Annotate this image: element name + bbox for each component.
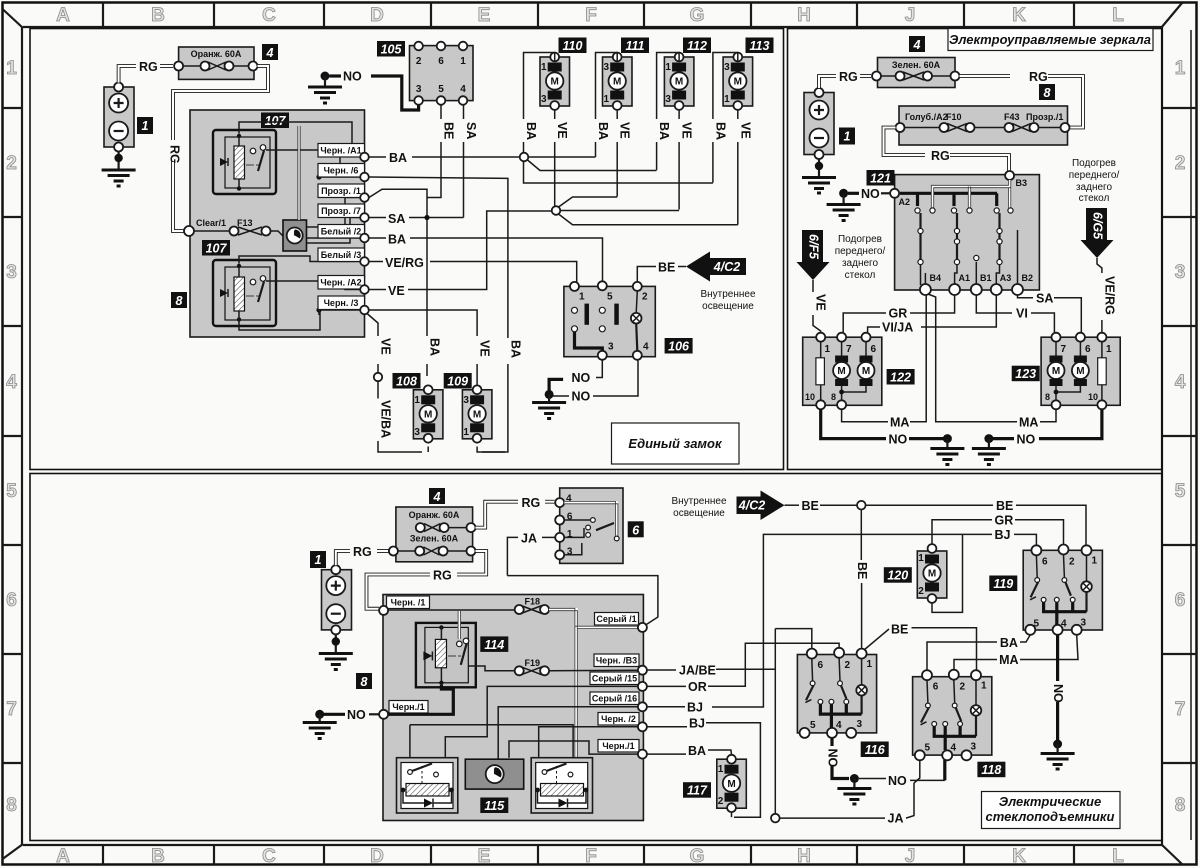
svg-text:F13: F13 bbox=[237, 218, 253, 228]
svg-text:RG: RG bbox=[139, 60, 158, 74]
motor 109 bbox=[462, 385, 492, 442]
svg-text:2: 2 bbox=[960, 682, 966, 693]
label 118 bbox=[977, 762, 1005, 778]
relay timer K 115-style box bbox=[283, 220, 307, 251]
label 115 bbox=[480, 798, 508, 814]
svg-text:2: 2 bbox=[718, 796, 724, 807]
svg-text:3: 3 bbox=[604, 62, 610, 73]
wire BE text to 118 pin1 bbox=[864, 628, 977, 670]
svg-text:5: 5 bbox=[810, 720, 816, 731]
label 122 bbox=[887, 369, 915, 385]
svg-text:6: 6 bbox=[871, 344, 877, 355]
node Черн./3 bbox=[360, 306, 369, 315]
svg-text:VE: VE bbox=[680, 122, 694, 139]
svg-text:4: 4 bbox=[6, 372, 17, 393]
svg-text:BA: BA bbox=[508, 340, 522, 358]
svg-text:1: 1 bbox=[918, 553, 924, 564]
svg-text:RG: RG bbox=[353, 545, 372, 559]
svg-text:1: 1 bbox=[541, 62, 547, 73]
svg-text:Электроуправляемые зеркала: Электроуправляемые зеркала bbox=[949, 32, 1151, 47]
svg-text:1: 1 bbox=[825, 344, 831, 355]
svg-text:освещение: освещение bbox=[673, 508, 725, 519]
wire SA B2 to 123 pin6 bbox=[1018, 295, 1082, 332]
svg-text:3: 3 bbox=[665, 94, 671, 105]
svg-text:110: 110 bbox=[563, 39, 583, 53]
battery 1 (windows) bbox=[322, 565, 352, 634]
svg-text:Единый замок: Единый замок bbox=[628, 436, 723, 451]
svg-text:M: M bbox=[1052, 366, 1060, 377]
arrow 6/F5 (down) bbox=[797, 230, 830, 280]
svg-text:Оранж. 60А: Оранж. 60А bbox=[191, 49, 242, 59]
wire JA/BE long vertical and JA bottom bbox=[775, 629, 914, 819]
svg-text:M: M bbox=[473, 410, 481, 421]
svg-text:Черн. /А1: Черн. /А1 bbox=[320, 146, 361, 156]
svg-text:7: 7 bbox=[6, 699, 17, 720]
wire Белый/2 (BA) to 106 pin5 bbox=[369, 238, 603, 281]
fuse 4 (Оранж. 60А) bbox=[174, 47, 257, 79]
junction dots module terminals bbox=[316, 174, 321, 179]
label 8 (window module) bbox=[356, 673, 372, 689]
wire Черн./6 to motor109 (BA) bbox=[369, 177, 508, 452]
wire JA from switch 6 pin1 bbox=[507, 537, 555, 575]
svg-text:H: H bbox=[797, 846, 811, 867]
svg-text:8: 8 bbox=[1045, 392, 1050, 402]
svg-text:1: 1 bbox=[867, 659, 873, 670]
wire NO 122 with grounds bbox=[821, 409, 965, 464]
svg-text:SA: SA bbox=[388, 212, 405, 226]
label 123 bbox=[1012, 366, 1040, 382]
wire VE from 6/F5 to 122 pin1 bbox=[813, 280, 821, 333]
svg-text:RG: RG bbox=[931, 149, 950, 163]
label 114 bbox=[480, 636, 508, 652]
svg-text:121: 121 bbox=[870, 172, 891, 186]
wire VE2 column motor111 bottom bbox=[616, 110, 618, 197]
svg-text:5: 5 bbox=[607, 292, 613, 303]
label 112 bbox=[683, 38, 711, 54]
svg-text:Белый /3: Белый /3 bbox=[321, 250, 361, 260]
arrow 6/G5 (down) bbox=[1081, 208, 1114, 258]
wire VI/JA A3 to 122 pin6 bbox=[868, 295, 997, 332]
svg-text:10: 10 bbox=[1088, 392, 1098, 402]
wire VE4 column motor113 bottom bbox=[737, 110, 739, 225]
svg-text:3: 3 bbox=[567, 547, 573, 558]
node Белый/2 bbox=[360, 234, 369, 243]
svg-text:Внутреннее: Внутреннее bbox=[671, 496, 727, 507]
svg-text:M: M bbox=[734, 77, 742, 88]
motor 120 bbox=[917, 544, 947, 603]
terminal Черн./2 bbox=[598, 713, 647, 732]
wire MA 123 to B4 bbox=[928, 294, 1056, 422]
fuse 4 Зелен. 60А (mirrors) bbox=[872, 58, 960, 88]
ground NO near 105 bbox=[308, 70, 419, 111]
terminal Серый/15 bbox=[590, 672, 647, 691]
svg-text:6: 6 bbox=[933, 682, 939, 693]
svg-text:F18: F18 bbox=[525, 597, 541, 607]
label 8 bbox=[171, 292, 187, 308]
label 120 bbox=[884, 567, 912, 583]
label 117 bbox=[683, 782, 711, 798]
wire NO 119/4 to ground bbox=[1041, 635, 1075, 769]
svg-text:Оранж. 60А: Оранж. 60А bbox=[409, 510, 460, 520]
svg-text:112: 112 bbox=[687, 39, 707, 53]
svg-text:VE/BA: VE/BA bbox=[379, 400, 393, 438]
label 116 bbox=[861, 742, 889, 758]
svg-text:B1: B1 bbox=[980, 273, 992, 283]
svg-text:1: 1 bbox=[1175, 58, 1186, 79]
wire RG fuse8 to 121 B3 bbox=[884, 128, 1010, 172]
wire GR A1 to 122 pin7 bbox=[843, 295, 954, 332]
svg-text:4: 4 bbox=[913, 38, 921, 52]
svg-text:107: 107 bbox=[265, 114, 287, 128]
wire motor120 bottom to BJ row bbox=[932, 534, 963, 612]
svg-text:J: J bbox=[905, 5, 916, 26]
motor 111 bbox=[603, 53, 633, 110]
svg-text:113: 113 bbox=[750, 39, 770, 53]
wire RG fuse to module (down left side) bbox=[168, 66, 269, 231]
svg-text:MA: MA bbox=[999, 653, 1018, 667]
svg-text:Прозр. /1: Прозр. /1 bbox=[321, 186, 361, 196]
svg-text:NO: NO bbox=[888, 774, 907, 788]
svg-text:BA: BA bbox=[389, 151, 407, 165]
svg-text:C: C bbox=[262, 846, 276, 867]
wire BA2 column to motor 111 bbox=[596, 53, 618, 158]
node Прозр./1 bbox=[360, 193, 369, 202]
wire BA 119/5 to 118/6 bbox=[927, 635, 1030, 670]
svg-text:H: H bbox=[797, 5, 811, 26]
svg-text:5: 5 bbox=[6, 481, 17, 502]
text internal lighting (windows) bbox=[671, 496, 727, 519]
arrow 4/C2 (left pointing) bbox=[686, 252, 746, 282]
svg-text:6: 6 bbox=[567, 512, 573, 523]
wire BA1 column to motor 110 bbox=[524, 53, 555, 153]
label 107 (second) bbox=[202, 240, 230, 256]
svg-text:JA/BE: JA/BE bbox=[679, 664, 716, 678]
motor 117 bbox=[717, 755, 747, 812]
svg-text:BE: BE bbox=[855, 562, 869, 579]
label 105 bbox=[377, 41, 405, 57]
svg-text:119: 119 bbox=[993, 577, 1013, 591]
title box mirrors bbox=[948, 29, 1153, 51]
svg-text:1: 1 bbox=[724, 94, 730, 105]
label 4 (mirrors) bbox=[909, 36, 925, 52]
fuse F18 bbox=[388, 597, 549, 615]
svg-text:GR: GR bbox=[995, 514, 1014, 528]
svg-text:BJ: BJ bbox=[687, 701, 703, 715]
svg-text:1: 1 bbox=[142, 119, 149, 133]
svg-text:107: 107 bbox=[206, 242, 228, 256]
svg-text:M: M bbox=[1076, 366, 1084, 377]
svg-text:VE: VE bbox=[814, 294, 828, 311]
svg-text:105: 105 bbox=[381, 43, 403, 57]
svg-text:B2: B2 bbox=[1022, 273, 1034, 283]
NO ground at 121 A2 bbox=[827, 187, 890, 221]
wire RG fuse row1 to switch 6 pin 4 bbox=[476, 496, 555, 528]
node SA/BA junction dot bbox=[424, 215, 429, 220]
svg-text:переднего/: переднего/ bbox=[835, 246, 886, 257]
svg-text:111: 111 bbox=[625, 39, 644, 53]
label 1 bbox=[137, 117, 153, 134]
svg-text:B4: B4 bbox=[930, 273, 942, 283]
wire MA 122 to B4 bbox=[842, 295, 927, 422]
svg-text:Черн. /2: Черн. /2 bbox=[601, 714, 636, 724]
svg-text:Черн. /А2: Черн. /А2 bbox=[320, 278, 361, 288]
svg-text:1: 1 bbox=[463, 427, 469, 438]
svg-text:Прозр./1: Прозр./1 bbox=[1026, 112, 1063, 122]
svg-text:переднего/: переднего/ bbox=[1069, 170, 1120, 181]
wire Черн./3 right to motor 109 VE bbox=[369, 310, 505, 452]
switch 116 bbox=[797, 648, 876, 738]
module internal wires bbox=[239, 122, 360, 330]
label 110 bbox=[559, 38, 587, 54]
svg-text:114: 114 bbox=[484, 638, 504, 652]
svg-text:115: 115 bbox=[484, 799, 505, 813]
svg-text:K: K bbox=[1012, 5, 1026, 26]
svg-text:BA: BA bbox=[688, 744, 706, 758]
K unit 115 bbox=[465, 759, 523, 789]
svg-text:B3: B3 bbox=[1016, 178, 1028, 188]
wire NO 123 with ground bbox=[972, 409, 1102, 464]
svg-text:6: 6 bbox=[632, 523, 640, 537]
svg-text:M: M bbox=[424, 410, 432, 421]
svg-text:M: M bbox=[675, 77, 683, 88]
svg-text:1: 1 bbox=[1092, 556, 1098, 567]
svg-text:Черн./1: Черн./1 bbox=[392, 702, 424, 712]
label 4 (windows) bbox=[429, 488, 445, 504]
node Черн./A2 bbox=[360, 285, 369, 294]
svg-text:M: M bbox=[928, 569, 936, 580]
svg-text:6: 6 bbox=[438, 56, 444, 67]
svg-text:6: 6 bbox=[1085, 344, 1091, 355]
label 8 (mirrors) bbox=[1039, 84, 1055, 100]
svg-text:BE: BE bbox=[996, 499, 1013, 513]
svg-text:NO: NO bbox=[572, 390, 591, 404]
svg-text:1: 1 bbox=[414, 395, 420, 406]
svg-text:2: 2 bbox=[416, 56, 422, 67]
svg-text:8: 8 bbox=[6, 795, 17, 816]
wire Прозр./7 / SA row bbox=[369, 217, 464, 219]
fuse box 8 (Голуб./A2 F10 F43 Прозр./1) bbox=[896, 106, 1070, 145]
svg-text:4: 4 bbox=[433, 490, 441, 504]
svg-text:D: D bbox=[370, 5, 384, 26]
battery 1 (mirrors) bbox=[804, 88, 834, 159]
svg-text:RG: RG bbox=[1029, 70, 1048, 84]
svg-text:7: 7 bbox=[1175, 699, 1186, 720]
terminal Черн./1 bottom bbox=[598, 740, 647, 759]
wire BJ row 2 (Черн./2) to motor 117 bottom bbox=[647, 723, 760, 818]
svg-text:6/G5: 6/G5 bbox=[1091, 212, 1105, 240]
svg-text:1: 1 bbox=[1106, 344, 1112, 355]
svg-text:VE/RG: VE/RG bbox=[385, 256, 424, 270]
svg-text:стекол: стекол bbox=[1079, 193, 1110, 204]
svg-text:F19: F19 bbox=[525, 658, 541, 668]
svg-text:1: 1 bbox=[460, 56, 466, 67]
svg-text:M: M bbox=[551, 77, 559, 88]
svg-text:M: M bbox=[727, 779, 735, 790]
svg-text:L: L bbox=[1112, 5, 1124, 26]
wire RG battery to fuse (windows) bbox=[336, 545, 389, 565]
svg-text:2: 2 bbox=[642, 292, 648, 303]
wire RG battery to fuse 4 (mirrors) bbox=[819, 70, 871, 88]
svg-text:A2: A2 bbox=[899, 197, 911, 207]
wire GR motor120 top to 119/2 bbox=[932, 520, 1064, 546]
svg-text:2: 2 bbox=[845, 660, 851, 671]
svg-text:BE: BE bbox=[658, 261, 675, 275]
wire OR row (Серый/15) bbox=[647, 643, 839, 686]
title box window lifters bbox=[982, 792, 1121, 829]
wire relay feed from top (double white) bbox=[458, 611, 460, 639]
svg-text:BA: BA bbox=[713, 122, 727, 140]
svg-text:106: 106 bbox=[668, 340, 690, 354]
label 106 bbox=[665, 338, 693, 354]
wire JA to Серый/1 bbox=[507, 576, 658, 625]
svg-text:7: 7 bbox=[846, 344, 852, 355]
wire VE/RG from 6/G5 to 123 pin1 bbox=[1097, 258, 1102, 333]
svg-text:C: C bbox=[262, 5, 276, 26]
node BA junction bbox=[520, 153, 529, 162]
svg-text:RG: RG bbox=[433, 569, 452, 583]
fuse Clear/1 F13 bbox=[184, 218, 283, 236]
svg-text:M: M bbox=[862, 366, 870, 377]
svg-text:F: F bbox=[585, 846, 597, 867]
svg-text:VE/RG: VE/RG bbox=[1102, 276, 1116, 315]
svg-text:3: 3 bbox=[971, 742, 977, 753]
svg-text:5: 5 bbox=[438, 84, 444, 95]
svg-text:3: 3 bbox=[6, 262, 17, 283]
svg-text:OR: OR bbox=[688, 680, 707, 694]
svg-text:8: 8 bbox=[1044, 86, 1051, 100]
svg-text:6/F5: 6/F5 bbox=[807, 234, 821, 260]
svg-text:1: 1 bbox=[718, 764, 724, 775]
svg-text:5: 5 bbox=[1175, 481, 1186, 502]
svg-text:6: 6 bbox=[1175, 590, 1186, 611]
node Черн./A1 bbox=[360, 153, 369, 162]
wire RG fuse4 to fuse8 (mirrors) bbox=[960, 70, 1084, 128]
wire F18 to Серый/1 and down (double white) bbox=[549, 608, 639, 757]
svg-text:122: 122 bbox=[890, 371, 911, 385]
svg-text:3: 3 bbox=[463, 395, 469, 406]
svg-text:4: 4 bbox=[643, 342, 649, 353]
wire Прозр./1 to motor108 (BA) bbox=[369, 189, 427, 376]
svg-text:A: A bbox=[56, 846, 70, 867]
svg-text:3: 3 bbox=[541, 94, 547, 105]
svg-text:BJ: BJ bbox=[689, 717, 705, 731]
wire RG fuse row2 to module bbox=[367, 551, 487, 609]
label 111 bbox=[621, 38, 649, 54]
label 4 bbox=[262, 44, 278, 60]
switch 6 (window) bbox=[555, 488, 623, 563]
svg-text:Внутреннее: Внутреннее bbox=[700, 289, 756, 300]
svg-text:123: 123 bbox=[1015, 367, 1036, 381]
svg-text:Подогрев: Подогрев bbox=[1072, 158, 1116, 169]
svg-text:6: 6 bbox=[1042, 557, 1048, 568]
svg-text:4/C2: 4/C2 bbox=[738, 499, 765, 513]
svg-text:Серый /1: Серый /1 bbox=[596, 614, 636, 624]
svg-text:стеклоподъемники: стеклоподъемники bbox=[986, 809, 1115, 824]
battery 1 bbox=[104, 83, 134, 152]
svg-text:1: 1 bbox=[6, 58, 17, 79]
svg-text:1: 1 bbox=[315, 553, 322, 567]
svg-text:заднего: заднего bbox=[1076, 182, 1112, 193]
svg-text:MA: MA bbox=[1019, 416, 1038, 430]
svg-text:4: 4 bbox=[460, 84, 466, 95]
svg-text:116: 116 bbox=[865, 743, 886, 757]
wire BE to arrow 4/C2 bbox=[637, 267, 686, 283]
label 119 bbox=[989, 576, 1017, 592]
svg-text:NO: NO bbox=[861, 187, 880, 201]
svg-text:F43: F43 bbox=[1004, 112, 1020, 122]
ground below battery 1 bbox=[102, 152, 136, 187]
label 6 (window switch) bbox=[628, 521, 644, 537]
svg-text:VE: VE bbox=[555, 122, 569, 139]
wire BA3 column to motor 112 bbox=[657, 53, 680, 171]
svg-text:BA: BA bbox=[1000, 636, 1018, 650]
connector 105 bbox=[410, 42, 474, 105]
svg-text:J: J bbox=[905, 846, 916, 867]
svg-text:8: 8 bbox=[361, 675, 368, 689]
window module 8 box bbox=[383, 595, 643, 821]
svg-text:3: 3 bbox=[724, 62, 730, 73]
wire Черн./B3 JA/BE row bbox=[647, 668, 775, 671]
svg-text:E: E bbox=[478, 846, 491, 867]
motor 110 bbox=[540, 53, 570, 110]
svg-text:NO: NO bbox=[889, 433, 908, 447]
svg-text:BA: BA bbox=[388, 233, 406, 247]
svg-text:1: 1 bbox=[579, 292, 585, 303]
svg-text:BE: BE bbox=[891, 623, 908, 637]
terminal Серый/1 bbox=[595, 613, 647, 632]
wire Белый/3 (VE/RG) to 106 pin1 bbox=[369, 262, 577, 283]
VE bus branches bbox=[559, 197, 738, 225]
wire VE1 column motor110 bottom bbox=[554, 110, 556, 206]
svg-text:10: 10 bbox=[805, 392, 815, 402]
svg-text:освещение: освещение bbox=[702, 301, 754, 312]
wire BE from 105 pin5 bbox=[427, 105, 456, 198]
svg-text:B: B bbox=[151, 846, 165, 867]
node BE junction bbox=[857, 501, 866, 510]
relay 114 bbox=[416, 623, 476, 687]
svg-text:Черн. /6: Черн. /6 bbox=[324, 166, 359, 176]
lock mechanism left bbox=[397, 758, 458, 813]
label 1 (mirrors) bbox=[839, 128, 855, 145]
svg-text:1: 1 bbox=[567, 529, 573, 540]
terminal tabs and circles bbox=[318, 144, 365, 310]
svg-text:120: 120 bbox=[887, 569, 908, 583]
terminal Серый/16 bbox=[590, 692, 647, 711]
label 113 bbox=[746, 38, 774, 54]
wire BE row from arrow bbox=[785, 505, 1087, 546]
svg-text:Серый /16: Серый /16 bbox=[592, 694, 637, 704]
svg-text:8: 8 bbox=[1175, 795, 1186, 816]
wire NO 116 pin4 to ground bbox=[826, 738, 872, 804]
svg-text:4/C2: 4/C2 bbox=[713, 260, 740, 274]
node Прозр./7 bbox=[360, 213, 369, 222]
label 121 bbox=[867, 170, 895, 186]
svg-text:A3: A3 bbox=[1000, 273, 1012, 283]
svg-text:VE: VE bbox=[388, 284, 405, 298]
svg-text:VI/JA: VI/JA bbox=[882, 321, 913, 335]
svg-text:NO: NO bbox=[343, 70, 362, 84]
motor 112 bbox=[664, 53, 694, 110]
svg-text:VI: VI bbox=[1016, 307, 1028, 321]
relay 107b bbox=[213, 260, 276, 326]
svg-text:Белый /2: Белый /2 bbox=[321, 227, 361, 237]
motor 113 bbox=[723, 53, 753, 110]
svg-text:F10: F10 bbox=[946, 112, 962, 122]
svg-text:4: 4 bbox=[266, 46, 274, 60]
svg-text:Черн. /3: Черн. /3 bbox=[324, 298, 359, 308]
text Подогрев (right) bbox=[1069, 158, 1120, 204]
label 109 bbox=[444, 373, 472, 389]
